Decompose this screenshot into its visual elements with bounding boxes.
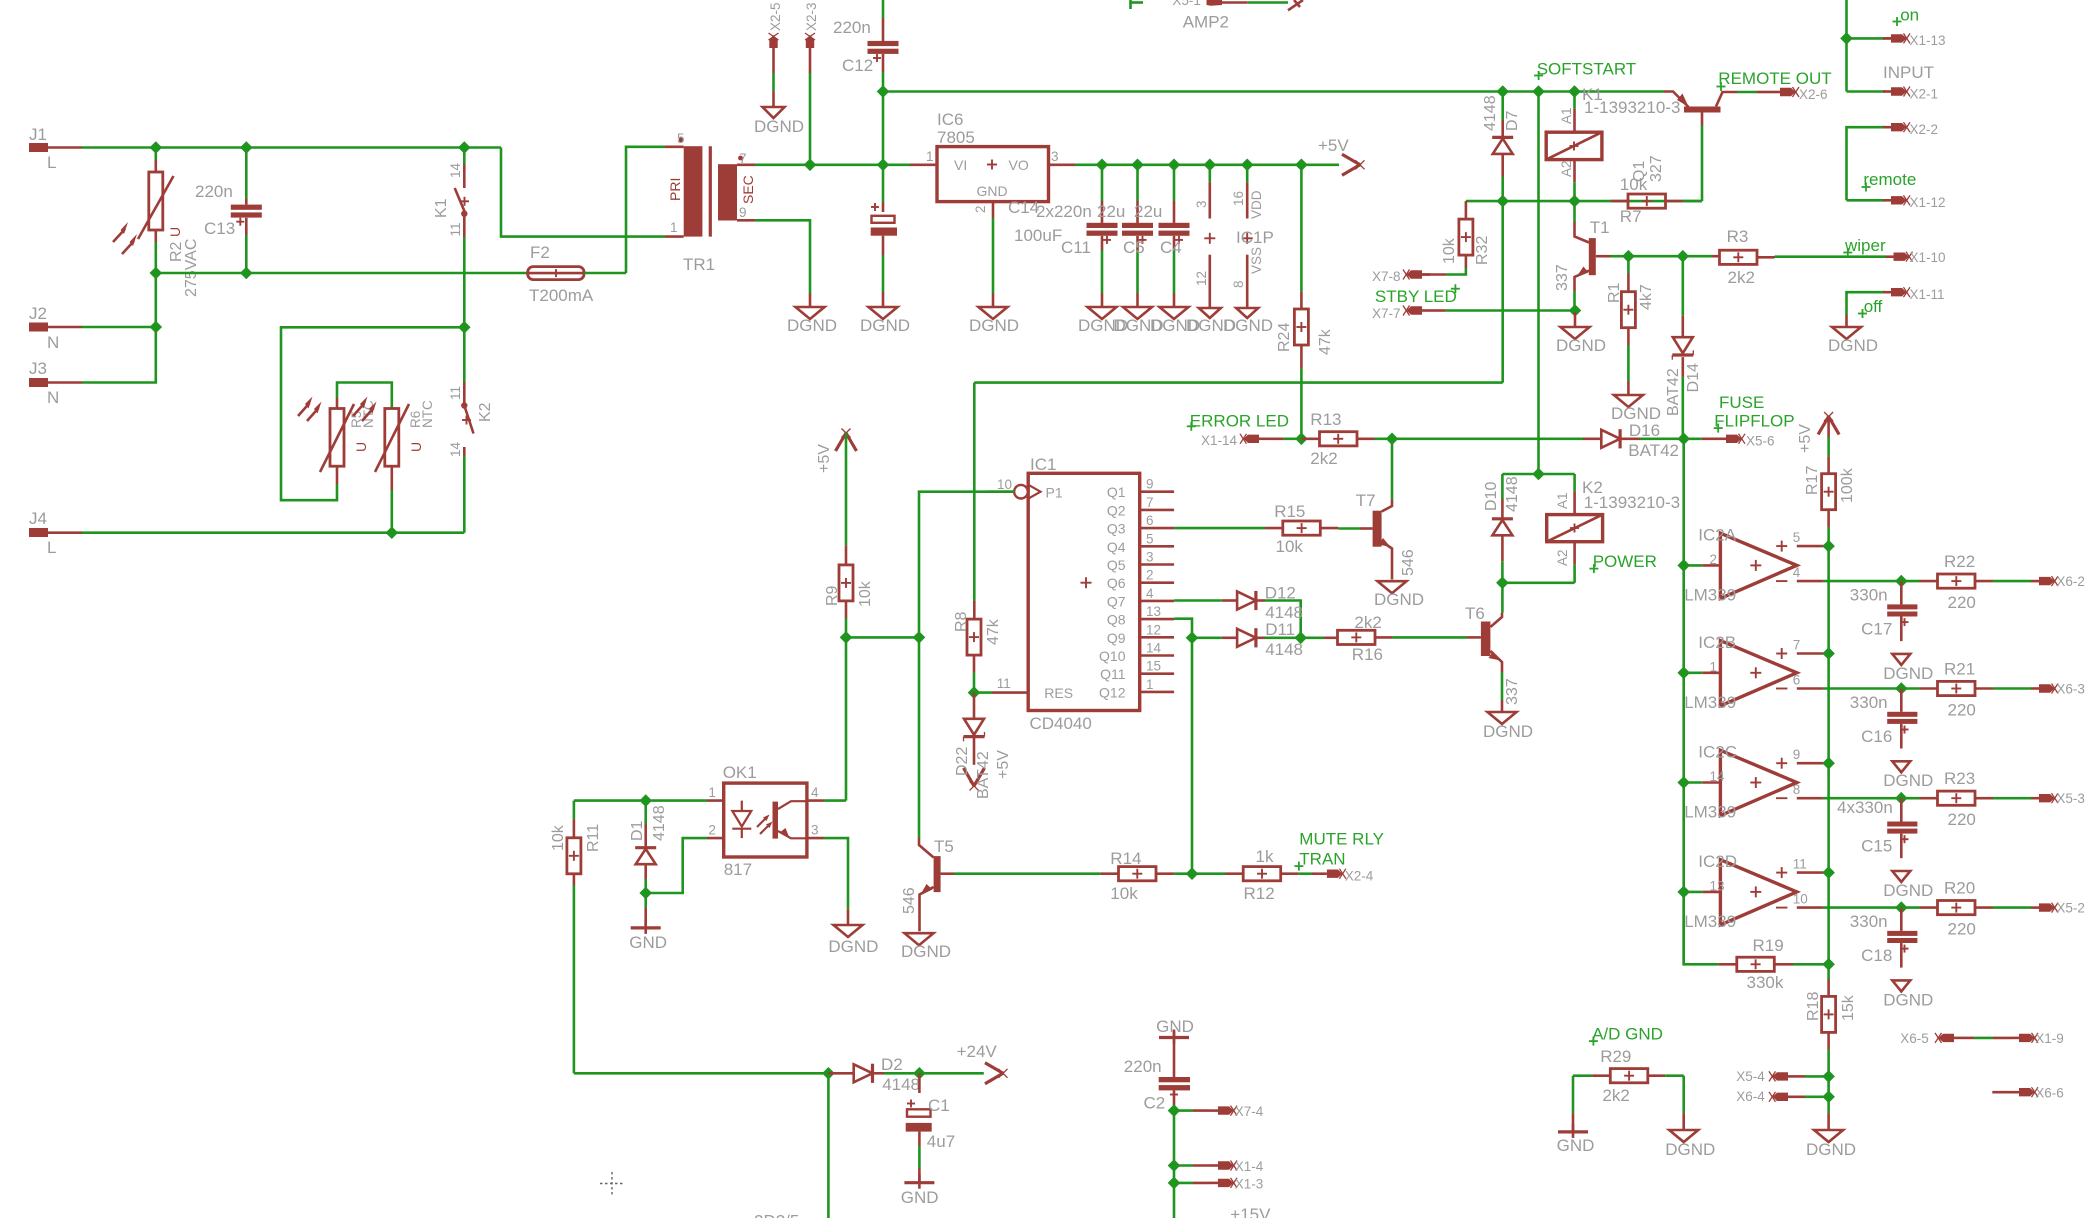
svg-text:RES: RES <box>1044 685 1073 701</box>
svg-text:9: 9 <box>1793 747 1801 762</box>
svg-text:D12: D12 <box>1265 584 1296 603</box>
svg-text:546: 546 <box>1400 549 1417 576</box>
svg-text:BAT42: BAT42 <box>975 751 992 799</box>
svg-text:Q1: Q1 <box>1631 161 1648 182</box>
regulator IC6 7805 <box>910 110 1075 213</box>
transformer TR1 <box>665 131 756 274</box>
svg-text:10: 10 <box>1793 892 1808 907</box>
pin X6-6 <box>1992 1086 2063 1101</box>
junction <box>1186 632 1199 645</box>
svg-text:C16: C16 <box>1861 727 1892 746</box>
junction <box>1677 559 1690 572</box>
resistor R18 <box>1805 979 1857 1113</box>
wire R11 to D2 row <box>574 1072 829 1075</box>
op-amp IC2C LM339 <box>1684 743 1901 822</box>
svg-text:X1-9: X1-9 <box>2035 1031 2064 1046</box>
svg-text:+5V: +5V <box>995 750 1012 779</box>
svg-text:A1: A1 <box>1559 107 1574 124</box>
svg-text:L: L <box>47 153 56 172</box>
svg-text:4148: 4148 <box>1265 640 1303 659</box>
svg-text:GND: GND <box>977 183 1008 199</box>
wire <box>1684 671 1703 674</box>
svg-text:C11: C11 <box>1061 238 1091 257</box>
svg-text:N: N <box>47 333 59 352</box>
diode D11 <box>1192 620 1303 659</box>
pin X2-6 <box>1757 87 1828 102</box>
svg-text:J4: J4 <box>29 509 47 528</box>
svg-text:R9: R9 <box>824 585 841 606</box>
svg-text:22u: 22u <box>1097 202 1125 221</box>
svg-text:GND: GND <box>901 1188 939 1207</box>
net label POWER <box>1589 552 1657 573</box>
wire P1 <box>919 492 1014 638</box>
svg-text:R15: R15 <box>1274 502 1305 521</box>
pin X2-1 <box>1847 86 1939 101</box>
svg-text:A1: A1 <box>1555 492 1570 509</box>
diode D22 BAT42 to +5V <box>954 693 1012 799</box>
pin X5-3 <box>2031 791 2085 806</box>
svg-text:D22: D22 <box>954 747 971 776</box>
svg-text:R19: R19 <box>1753 936 1784 955</box>
net label A/D GND <box>1589 1025 1663 1046</box>
svg-text:D1: D1 <box>629 820 646 841</box>
svg-text:DGND: DGND <box>1374 590 1424 609</box>
svg-text:C1: C1 <box>928 1096 950 1115</box>
svg-text:remote: remote <box>1863 170 1916 189</box>
svg-text:4: 4 <box>811 785 819 800</box>
ground GND <box>1156 1017 1194 1077</box>
supply +5V <box>1318 136 1365 175</box>
svg-text:A2: A2 <box>1559 160 1574 177</box>
IC IC1 CD4040 <box>988 455 1140 733</box>
svg-text:+5V: +5V <box>1318 136 1349 155</box>
svg-text:13: 13 <box>1146 604 1161 619</box>
svg-text:U: U <box>353 442 369 452</box>
junction <box>1294 632 1307 645</box>
svg-text:275VAC: 275VAC <box>183 239 200 297</box>
junction <box>1532 85 1545 98</box>
svg-text:X5-1: X5-1 <box>1172 0 1201 8</box>
junction <box>1822 647 1835 660</box>
svg-text:14: 14 <box>1146 641 1162 656</box>
svg-text:330k: 330k <box>1747 973 1784 992</box>
junction <box>1822 540 1835 553</box>
svg-text:5: 5 <box>1146 531 1154 546</box>
resistor R7 <box>1611 155 1702 226</box>
svg-text:6: 6 <box>1793 672 1801 687</box>
wire +5V rail <box>1075 164 1339 167</box>
connector J2 <box>29 304 82 352</box>
junction <box>150 141 163 154</box>
wire <box>1173 1111 1176 1218</box>
pin X5-1 (cut) <box>1172 0 1303 10</box>
svg-text:C4: C4 <box>1160 238 1182 257</box>
IC1 pin Q2 <box>1107 495 1174 519</box>
svg-text:TRAN: TRAN <box>1299 850 1345 869</box>
op-amp IC2B LM339 <box>1684 633 1901 712</box>
svg-text:DGND: DGND <box>787 316 837 335</box>
relay coil K1 <box>1546 85 1680 201</box>
transistor Q1 <box>1664 92 1757 202</box>
junction <box>1895 575 1908 588</box>
svg-text:R16: R16 <box>1352 645 1383 664</box>
wire L bottom (J4) <box>82 531 464 534</box>
svg-text:GND: GND <box>1557 1136 1595 1155</box>
net label ERROR LED <box>1187 412 1289 431</box>
connector J3 <box>29 359 82 407</box>
junction <box>240 267 253 280</box>
IC1 pin Q6 <box>1107 568 1174 592</box>
svg-text:4148: 4148 <box>1504 476 1521 512</box>
capacitor C13 <box>195 148 262 274</box>
junction <box>1204 159 1217 172</box>
svg-text:+24V: +24V <box>957 1042 998 1061</box>
net label FUSE FLIPFLOP <box>1714 393 1795 433</box>
svg-text:X2-3: X2-3 <box>804 2 819 31</box>
svg-text:DGND: DGND <box>1223 316 1273 335</box>
svg-text:DGND: DGND <box>1665 1140 1715 1159</box>
wire sec to X2-3 <box>809 73 812 165</box>
supply +5V <box>1797 412 1839 453</box>
pin X6-3 <box>2031 682 2085 697</box>
wire fuse-flipflop <box>1392 437 1583 440</box>
junction <box>840 631 853 644</box>
svg-text:16: 16 <box>1231 191 1246 206</box>
svg-text:R14: R14 <box>1110 849 1141 868</box>
svg-text:R17: R17 <box>1804 466 1821 495</box>
svg-text:10k: 10k <box>1441 237 1458 264</box>
ground DGND <box>1374 581 1424 609</box>
svg-text:X7-8: X7-8 <box>1372 269 1401 284</box>
junction <box>1822 1091 1835 1104</box>
svg-text:100k: 100k <box>1839 467 1856 503</box>
svg-text:C14: C14 <box>1008 198 1039 217</box>
svg-text:D11: D11 <box>1265 620 1295 639</box>
svg-text:Q3: Q3 <box>1107 521 1126 537</box>
IC1 pin Q11 <box>1100 659 1174 683</box>
pin X2-2 <box>1847 122 1939 200</box>
cursor crosshair <box>600 1172 624 1196</box>
svg-text:7: 7 <box>739 151 747 166</box>
svg-text:X1-10: X1-10 <box>1910 250 1946 265</box>
svg-text:6: 6 <box>1146 513 1154 528</box>
junction <box>1168 159 1181 172</box>
wire base row <box>1466 200 1702 203</box>
IC1 pin Q7 <box>1107 586 1174 610</box>
svg-text:15k: 15k <box>1840 994 1857 1021</box>
wire on col <box>1845 0 1848 92</box>
wire D7 col down <box>974 201 1502 383</box>
svg-text:X1-11: X1-11 <box>1910 287 1945 302</box>
svg-text:X6-5: X6-5 <box>1900 1031 1929 1046</box>
svg-text:D2: D2 <box>881 1055 903 1074</box>
IC power IC1P pin3/12 <box>1186 165 1236 335</box>
ground DGND <box>787 294 837 336</box>
junction <box>1496 577 1509 590</box>
wire sec pin7 row <box>755 164 910 167</box>
svg-text:10k: 10k <box>550 824 567 851</box>
svg-text:C13: C13 <box>204 219 235 238</box>
op-amp IC2A LM339 <box>1684 525 1901 604</box>
svg-text:R24: R24 <box>1276 323 1293 352</box>
wire RES pin <box>974 691 992 694</box>
wire J1 to TR1 pin1 <box>501 148 665 237</box>
svg-text:J3: J3 <box>29 359 47 378</box>
svg-text:22u: 22u <box>1134 202 1162 221</box>
pin X1-10 <box>1886 250 1946 265</box>
capacitor C15 <box>1837 798 1933 900</box>
svg-text:R11: R11 <box>585 824 602 852</box>
diode D2 <box>828 1055 920 1094</box>
wire <box>827 1073 830 1218</box>
IC1 pin Q3 <box>1107 513 1174 537</box>
junction <box>1622 250 1635 263</box>
svg-text:R23: R23 <box>1944 769 1975 788</box>
svg-text:A2: A2 <box>1555 549 1570 566</box>
svg-text:1: 1 <box>670 220 678 235</box>
svg-text:2: 2 <box>708 823 716 838</box>
net label on <box>1893 5 1920 26</box>
svg-text:L: L <box>47 538 56 557</box>
svg-text:+15V: +15V <box>1230 1205 1271 1218</box>
relay contact K1 <box>433 148 469 238</box>
junction <box>639 794 652 807</box>
svg-text:IC2D: IC2D <box>1698 852 1737 871</box>
svg-text:+5V: +5V <box>816 444 833 473</box>
svg-text:3: 3 <box>1051 149 1059 164</box>
junction <box>1131 159 1144 172</box>
pin X6-5 to X1-9 <box>1900 1031 2063 1046</box>
svg-text:Q10: Q10 <box>1099 648 1126 664</box>
resistor R15 <box>1174 502 1360 556</box>
ground GND <box>1557 1076 1595 1155</box>
wire N (J2) <box>82 326 156 329</box>
svg-text:J2: J2 <box>29 304 47 323</box>
svg-text:14: 14 <box>448 441 463 457</box>
svg-text:Q2: Q2 <box>1107 502 1126 518</box>
svg-text:VSS: VSS <box>1249 247 1264 274</box>
svg-text:11: 11 <box>997 676 1011 691</box>
wire OK1-4 up <box>824 799 847 802</box>
svg-text:3: 3 <box>1194 200 1209 208</box>
svg-text:U: U <box>408 442 424 452</box>
net label wiper <box>1843 236 1886 257</box>
wire L net (J1 row) <box>82 146 501 149</box>
pin X5-6 <box>1684 434 1775 449</box>
svg-text:Q8: Q8 <box>1107 612 1126 628</box>
junction <box>913 631 926 644</box>
svg-text:7805: 7805 <box>937 128 975 147</box>
svg-text:DGND: DGND <box>1556 336 1606 355</box>
svg-text:4: 4 <box>1146 586 1154 601</box>
svg-text:LM339: LM339 <box>1684 693 1736 712</box>
svg-text:11: 11 <box>448 222 463 236</box>
svg-text:IC2B: IC2B <box>1698 633 1736 652</box>
resistor R14 <box>1100 849 1192 903</box>
svg-text:AMP2: AMP2 <box>1183 13 1229 32</box>
junction <box>1822 757 1835 770</box>
resistor R16 <box>1301 613 1467 664</box>
svg-text:D7: D7 <box>1504 110 1521 131</box>
svg-text:DGND: DGND <box>1883 990 1933 1009</box>
svg-text:VDD: VDD <box>1249 190 1264 219</box>
junction <box>1241 159 1254 172</box>
resistor R11 <box>550 801 602 1074</box>
junction <box>458 141 471 154</box>
connector J4 <box>29 509 82 557</box>
ground DGND <box>1828 315 1878 355</box>
svg-text:FUSE: FUSE <box>1719 393 1764 412</box>
pin X6-4 <box>1736 1089 1828 1104</box>
transistor T1 <box>1554 201 1611 308</box>
svg-text:LM339: LM339 <box>1684 912 1736 931</box>
svg-text:220: 220 <box>1948 810 1976 829</box>
svg-text:TR1: TR1 <box>683 255 715 274</box>
capacitor C5 <box>1114 165 1164 335</box>
junction <box>1895 792 1908 805</box>
svg-text:2: 2 <box>1710 552 1718 567</box>
junction <box>804 159 817 172</box>
IC1 pin Q5 <box>1107 550 1174 574</box>
ground DGND <box>754 92 804 137</box>
wire wiper row <box>1611 255 1713 258</box>
diode D16 BAT42 <box>1583 421 1684 460</box>
svg-text:X5-6: X5-6 <box>1746 434 1775 449</box>
svg-text:10k: 10k <box>857 580 874 607</box>
svg-text:220: 220 <box>1948 593 1976 612</box>
junction <box>1822 958 1835 971</box>
svg-text:14: 14 <box>1710 769 1726 784</box>
svg-text:R18: R18 <box>1805 992 1822 1021</box>
svg-text:+5V: +5V <box>1797 424 1814 453</box>
svg-text:X6-2: X6-2 <box>2056 574 2085 589</box>
svg-text:4148: 4148 <box>651 805 668 841</box>
capacitor C16 <box>1850 689 1933 791</box>
pin X1-11 <box>1847 287 1945 315</box>
resistor R20 <box>1901 879 2031 939</box>
wire <box>846 636 919 639</box>
connector J1 <box>29 125 82 172</box>
resistor R21 <box>1901 660 2031 720</box>
junction <box>1568 195 1581 208</box>
junction <box>386 526 399 539</box>
svg-text:POWER: POWER <box>1593 552 1657 571</box>
resistor R13 <box>1301 410 1392 468</box>
net label remote <box>1862 170 1917 192</box>
svg-text:C12: C12 <box>842 56 873 75</box>
relay contact K2 <box>448 327 494 457</box>
wire <box>772 73 775 92</box>
svg-text:D14: D14 <box>1685 363 1702 392</box>
svg-text:X2-1: X2-1 <box>1910 86 1939 101</box>
svg-text:DGND: DGND <box>901 942 951 961</box>
junction <box>1677 667 1690 680</box>
junction <box>1840 32 1853 45</box>
junction <box>639 887 652 900</box>
pin X2-5 <box>768 2 783 73</box>
svg-text:12: 12 <box>1194 271 1209 286</box>
junction <box>1677 250 1690 263</box>
wire R8 net top <box>973 383 976 601</box>
svg-text:D16: D16 <box>1629 421 1660 440</box>
svg-text:IC6: IC6 <box>937 110 963 129</box>
junction <box>1568 85 1581 98</box>
svg-text:4148: 4148 <box>882 1075 920 1094</box>
ground DGND <box>1556 312 1606 355</box>
junction <box>1677 433 1690 446</box>
resistor R29 <box>1573 1047 1684 1105</box>
IC power IC1P pin16/8 <box>1223 165 1274 335</box>
svg-text:2x220n: 2x220n <box>1036 202 1092 221</box>
net label off <box>1858 297 1883 318</box>
svg-text:337: 337 <box>1504 678 1521 705</box>
net label REMOTE OUT <box>1717 69 1832 91</box>
ground DGND <box>1611 395 1661 423</box>
svg-text:DGND: DGND <box>1828 336 1878 355</box>
svg-text:DGND: DGND <box>969 316 1019 335</box>
cut text +15V <box>1230 1205 1271 1218</box>
optocoupler OK1 <box>707 763 824 879</box>
label AMP2 <box>1183 13 1229 32</box>
svg-text:R3: R3 <box>1727 227 1749 246</box>
svg-text:1: 1 <box>708 785 716 800</box>
wire comparator output col <box>1682 439 1685 965</box>
wire K2-14 down <box>463 456 466 533</box>
wire <box>1684 781 1703 784</box>
svg-text:2D2/5: 2D2/5 <box>754 1212 799 1218</box>
diode D7 <box>1482 92 1521 202</box>
svg-text:9: 9 <box>1146 477 1154 492</box>
wire fuse to TR1 pin5 <box>626 147 665 273</box>
junction <box>1295 159 1308 172</box>
resistor R24 <box>1276 165 1334 439</box>
ground DGND <box>1665 1076 1715 1159</box>
net label MUTE RLY TRAN <box>1294 830 1384 871</box>
svg-text:ERROR LED: ERROR LED <box>1190 412 1289 431</box>
svg-text:IC2C: IC2C <box>1698 743 1737 762</box>
svg-text:8: 8 <box>1231 280 1246 288</box>
supply +24V <box>919 1042 1007 1084</box>
svg-text:1: 1 <box>926 149 934 164</box>
svg-text:R1: R1 <box>1606 282 1623 303</box>
svg-text:REMOTE OUT: REMOTE OUT <box>1718 69 1831 88</box>
svg-text:7: 7 <box>1793 637 1801 652</box>
wire NTC loop <box>281 327 464 532</box>
pin X7-4 <box>1174 1104 1264 1119</box>
pin X5-2 <box>2031 901 2085 916</box>
svg-text:DGND: DGND <box>828 937 878 956</box>
svg-text:SEC: SEC <box>740 175 756 204</box>
svg-text:DGND: DGND <box>1483 722 1533 741</box>
junction <box>150 321 163 334</box>
pin X7-8 <box>1372 269 1430 284</box>
svg-text:GND: GND <box>629 933 667 952</box>
junction <box>822 1067 835 1080</box>
wire comparator plus col <box>1827 546 1830 979</box>
wire <box>1684 891 1703 894</box>
svg-text:C5: C5 <box>1123 238 1145 257</box>
svg-text:X2-5: X2-5 <box>768 2 783 31</box>
IC1 pin Q1 <box>1107 477 1174 501</box>
svg-text:DGND: DGND <box>1883 771 1933 790</box>
svg-text:8: 8 <box>1793 782 1801 797</box>
svg-text:K2: K2 <box>477 402 494 422</box>
junction <box>877 85 890 98</box>
svg-text:2: 2 <box>973 205 988 213</box>
svg-text:1: 1 <box>1146 677 1154 692</box>
svg-text:Q7: Q7 <box>1107 593 1126 609</box>
svg-text:1-1393210-3: 1-1393210-3 <box>1584 98 1680 117</box>
